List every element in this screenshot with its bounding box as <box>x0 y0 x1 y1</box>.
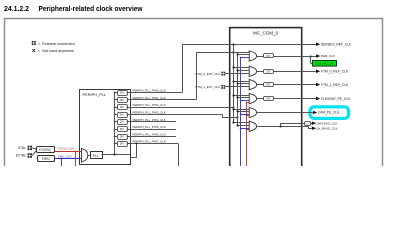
svg-text:FXOSC: FXOSC <box>39 148 52 152</box>
svg-text:DIV: DIV <box>120 128 125 131</box>
svg-text:PERIPH_PLL_PHI4_CLK: PERIPH_PLL_PHI4_CLK <box>133 118 166 122</box>
svg-text:DIV: DIV <box>120 143 125 146</box>
svg-text:CMU_FC_10: CMU_FC_10 <box>316 62 333 66</box>
svg-text:PERIPH_PLL_PHI7_CLK: PERIPH_PLL_PHI7_CLK <box>133 140 166 144</box>
svg-text:FTM_1_REF_CLK: FTM_1_REF_CLK <box>321 83 349 87</box>
svg-text:DIV: DIV <box>120 135 125 138</box>
svg-text:FIRC_CLK: FIRC_CLK <box>58 155 72 159</box>
svg-text:=: = <box>38 49 40 53</box>
svg-text:PERIPH_PLL_PHI1_CLK: PERIPH_PLL_PHI1_CLK <box>133 96 166 100</box>
svg-text:FXOSC_CLK: FXOSC_CLK <box>58 146 75 150</box>
svg-text:PERIPH_PLL_PHI5_CLK: PERIPH_PLL_PHI5_CLK <box>133 125 166 129</box>
svg-text:24.1.2.2: 24.1.2.2 <box>4 4 29 13</box>
svg-text:DIV: DIV <box>120 99 125 102</box>
svg-text:LIN_BAUD_CLK: LIN_BAUD_CLK <box>316 126 338 130</box>
svg-text:FTM_1_EXT_CLK: FTM_1_EXT_CLK <box>195 85 220 89</box>
svg-text:Not used anywhere: Not used anywhere <box>42 49 74 53</box>
svg-text:FLEXRAY_PE_CLK: FLEXRAY_PE_CLK <box>321 97 351 101</box>
svg-text:FTM_0_EXT_CLK: FTM_0_EXT_CLK <box>195 72 220 76</box>
svg-text:=: = <box>38 42 40 46</box>
svg-text:PERIPH_PLL: PERIPH_PLL <box>83 92 107 97</box>
svg-text:PLL: PLL <box>93 154 99 158</box>
svg-text:PERIPH_PLL_PHI3_CLK: PERIPH_PLL_PHI3_CLK <box>133 111 166 115</box>
svg-text:FTM_0_REF_CLK: FTM_0_REF_CLK <box>321 70 349 74</box>
svg-text:DIV: DIV <box>267 55 271 58</box>
svg-text:SERDES_REF_CLK: SERDES_REF_CLK <box>321 42 352 46</box>
svg-text:DIV: DIV <box>120 106 125 109</box>
svg-text:CAN_PE_CLK: CAN_PE_CLK <box>318 111 340 115</box>
svg-text:DIV: DIV <box>267 70 271 73</box>
svg-text:DIV: DIV <box>267 98 271 101</box>
svg-text:PERIPH_PLL_PHI0_CLK: PERIPH_PLL_PHI0_CLK <box>133 89 166 93</box>
svg-text:Peripheral-related clock overv: Peripheral-related clock overview <box>39 4 143 13</box>
svg-text:PER_CLK: PER_CLK <box>321 54 336 58</box>
svg-text:DIV: DIV <box>120 113 125 116</box>
svg-text:DIV: DIV <box>267 84 271 87</box>
svg-text:External connection: External connection <box>42 42 74 46</box>
svg-text:FIRC: FIRC <box>42 157 51 161</box>
svg-text:DIV: DIV <box>120 121 125 124</box>
svg-text:MC_CGM_0: MC_CGM_0 <box>253 30 279 35</box>
svg-text:DIV: DIV <box>120 91 125 94</box>
svg-text:PERIPH_PLL_PHI2_CLK: PERIPH_PLL_PHI2_CLK <box>133 103 166 107</box>
svg-text:PERIPH_PLL_PHI6_CLK: PERIPH_PLL_PHI6_CLK <box>133 132 166 136</box>
svg-text:XTAL: XTAL <box>18 146 26 150</box>
svg-text:EXTAL: EXTAL <box>16 154 26 158</box>
svg-text:LINFLEXD_CLK: LINFLEXD_CLK <box>316 121 338 125</box>
